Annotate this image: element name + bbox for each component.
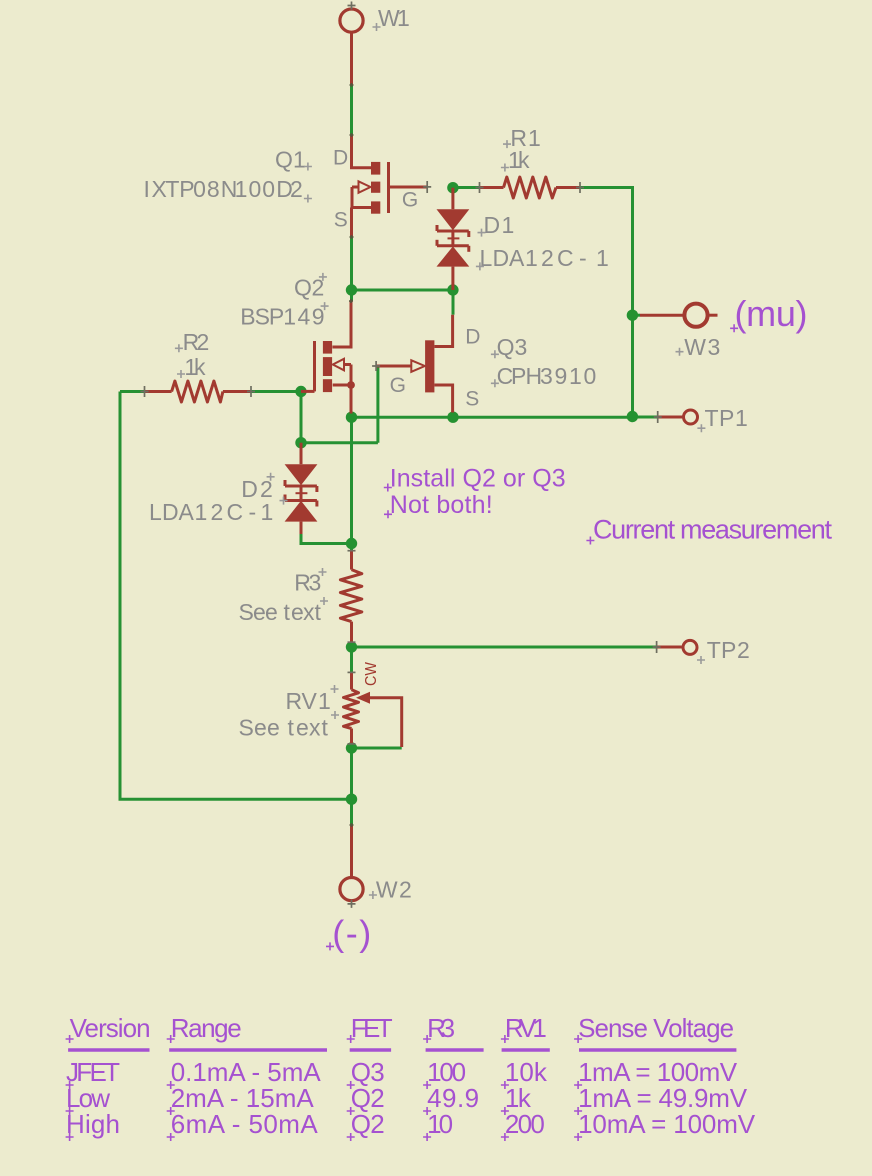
svg-text:D: D	[465, 326, 480, 349]
svg-text:See text: See text	[239, 715, 329, 741]
svg-text:R2: R2	[183, 329, 210, 355]
svg-text:CPH3910: CPH3910	[497, 363, 597, 389]
svg-text:(mu): (mu)	[735, 293, 808, 334]
svg-text:FET: FET	[351, 1013, 393, 1043]
svg-text:RV1: RV1	[505, 1013, 547, 1043]
svg-text:6mA - 50mA: 6mA - 50mA	[171, 1109, 319, 1139]
svg-text:TP2: TP2	[707, 637, 750, 663]
svg-text:1k: 1k	[184, 354, 206, 380]
svg-text:Not both!: Not both!	[390, 491, 493, 519]
svg-text:Install Q2 or Q3: Install Q2 or Q3	[390, 464, 566, 492]
svg-text:W1: W1	[378, 5, 410, 31]
svg-text:D: D	[333, 146, 348, 169]
svg-text:S: S	[465, 388, 479, 411]
svg-text:CW: CW	[363, 661, 380, 686]
svg-text:200: 200	[505, 1109, 545, 1139]
svg-text:(-): (-)	[332, 913, 371, 954]
svg-text:See text: See text	[239, 599, 322, 625]
svg-text:G: G	[390, 374, 406, 397]
svg-text:R3: R3	[294, 570, 321, 596]
svg-text:TP1: TP1	[705, 405, 748, 431]
svg-text:10mA = 100mV: 10mA = 100mV	[578, 1109, 756, 1139]
svg-text:S: S	[334, 208, 348, 231]
svg-text:Q2: Q2	[294, 275, 324, 301]
svg-text:LDA12C-1: LDA12C-1	[149, 499, 273, 525]
svg-text:W3: W3	[684, 334, 720, 360]
svg-text:W2: W2	[376, 877, 412, 903]
svg-text:Q2: Q2	[351, 1109, 385, 1139]
svg-text:IXTP08N100D2: IXTP08N100D2	[144, 176, 303, 202]
svg-text:Range: Range	[171, 1013, 242, 1043]
svg-text:G: G	[402, 189, 418, 212]
svg-text:Current measurement: Current measurement	[593, 514, 832, 544]
svg-text:Version: Version	[70, 1013, 151, 1043]
svg-text:Q3: Q3	[497, 334, 528, 360]
svg-text:High: High	[66, 1109, 120, 1139]
svg-text:10: 10	[427, 1109, 453, 1139]
svg-text:BSP149: BSP149	[240, 304, 324, 330]
svg-text:R3: R3	[427, 1013, 455, 1043]
svg-text:RV1: RV1	[286, 688, 331, 714]
svg-text:D1: D1	[484, 212, 515, 238]
svg-text:Sense Voltage: Sense Voltage	[578, 1013, 734, 1043]
svg-text:1k: 1k	[508, 147, 530, 173]
svg-text:Q1: Q1	[275, 147, 306, 173]
